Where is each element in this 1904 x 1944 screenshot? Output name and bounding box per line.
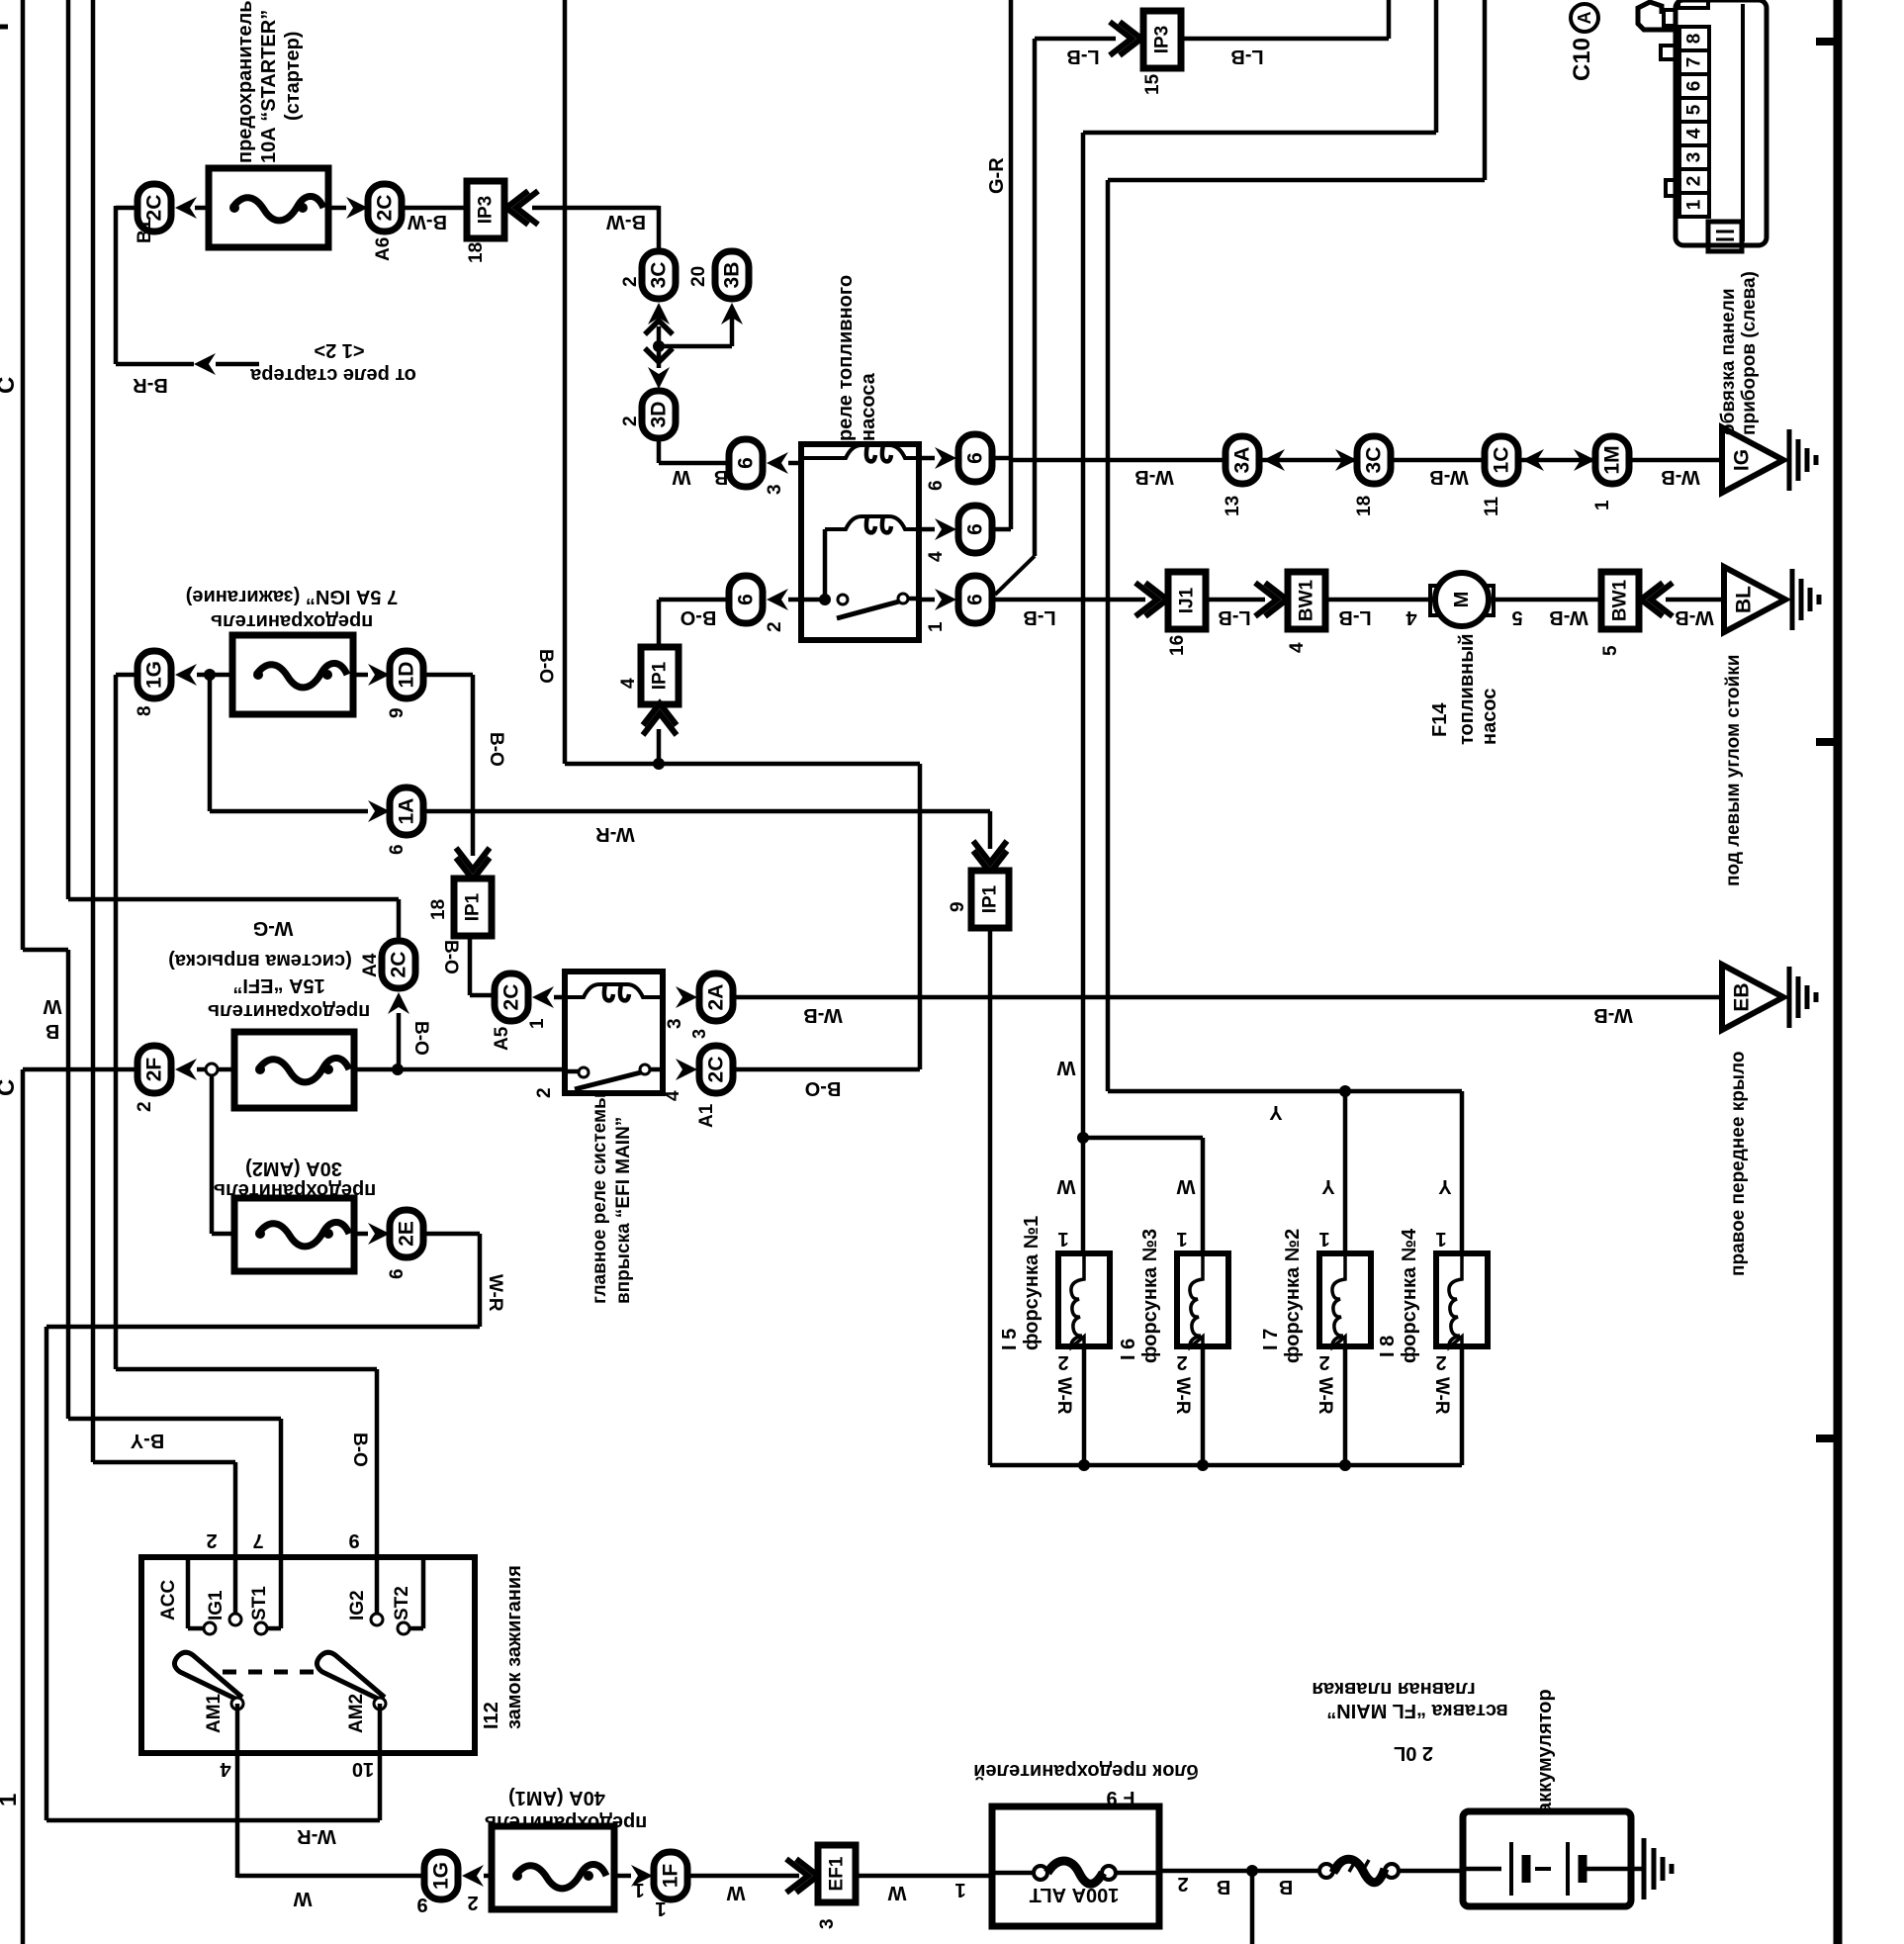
wire fuse AM2 to arrow — [354, 1232, 368, 1237]
svg-text:3C: 3C — [1363, 447, 1386, 474]
injector I5 box — [1058, 1253, 1110, 1346]
injector I8 box — [1436, 1253, 1488, 1346]
svg-text:5: 5 — [1684, 104, 1705, 115]
arrow up into 3B — [721, 303, 743, 324]
svg-text:1F: 1F — [660, 1864, 682, 1889]
arrow into 1F — [631, 1865, 653, 1887]
junction dot 3C/3B/3D — [653, 340, 665, 352]
connector IP3 pin 15 box — [1143, 11, 1181, 68]
svg-text:A5: A5 — [492, 1026, 512, 1051]
wire W-B to EB — [733, 995, 1722, 1000]
svg-text:BL: BL — [1733, 586, 1756, 613]
ground symbol at BL — [1790, 569, 1795, 630]
contact AM2 — [374, 1698, 386, 1710]
connector C10 tab1 — [1664, 10, 1676, 26]
svg-text:форсунка №4: форсунка №4 — [1399, 1228, 1420, 1363]
svg-text:4: 4 — [1287, 642, 1308, 653]
svg-text:2 0L: 2 0L — [1394, 1742, 1433, 1764]
wire fuse EFI to relay — [354, 1067, 565, 1072]
wire W elbow right vertical — [1434, 0, 1439, 133]
svg-text:B-O: B-O — [440, 940, 461, 974]
terminal ACC contact — [204, 1622, 216, 1634]
svg-text:L-B: L-B — [1218, 606, 1250, 628]
svg-text:топливный: топливный — [1456, 633, 1478, 745]
chevrons into IP3-15 — [1110, 22, 1141, 55]
connector C10 pin 2 square — [1679, 169, 1709, 193]
svg-text:W-B: W-B — [1429, 466, 1469, 488]
terminal ST1 stub — [279, 1560, 284, 1628]
battery ground — [1642, 1838, 1647, 1899]
svg-text:A: A — [1575, 12, 1594, 25]
connector 2C pin A5 — [495, 973, 528, 1021]
wire W to IG1 corner — [93, 1460, 235, 1465]
svg-text:4: 4 — [618, 678, 639, 689]
svg-text:6: 6 — [964, 452, 987, 464]
wire 3C to junction — [657, 326, 662, 346]
terminal ST1 contact — [255, 1622, 267, 1634]
wire fuse to arrow 1D — [353, 673, 368, 678]
svg-text:13: 13 — [1223, 496, 1243, 516]
svg-text:B-O: B-O — [535, 649, 556, 684]
svg-text:W-R: W-R — [1431, 1377, 1452, 1415]
svg-text:W-R: W-R — [1053, 1377, 1074, 1415]
connector IP1 pin 18 box — [454, 879, 492, 936]
wire inj3 pin2 — [1201, 1346, 1206, 1465]
wire junction to 3B riser — [659, 344, 732, 349]
wire 2F line from border — [23, 1067, 137, 1072]
svg-text:3A: 3A — [1231, 447, 1254, 474]
chevrons into EF1 — [786, 1859, 818, 1893]
fuse 30A AM2 box — [234, 1198, 354, 1271]
arrow into 1C — [1522, 449, 1544, 471]
injector I6 box — [1177, 1253, 1228, 1346]
connector 2F pin 2 — [137, 1046, 171, 1093]
svg-text:G-R: G-R — [986, 157, 1008, 194]
connector 2E pin 6 — [390, 1210, 423, 1257]
wire B-O horizontal — [116, 1367, 377, 1372]
arrow into 2A — [676, 986, 697, 1008]
svg-text:10: 10 — [352, 1758, 374, 1780]
svg-text:A4: A4 — [360, 953, 381, 977]
EFI MAIN relay box — [565, 972, 663, 1093]
wire EF1 to fusebox — [856, 1874, 992, 1879]
svg-text:I12: I12 — [481, 1702, 502, 1729]
connector 1A pin 6 — [390, 787, 423, 835]
svg-text:W: W — [43, 995, 61, 1017]
battery plate short 2 — [1579, 1855, 1587, 1883]
connector 2C pin A6 — [368, 184, 402, 231]
wire FL MAIN to battery — [1399, 1869, 1463, 1874]
pump relay right contact — [898, 594, 908, 603]
connector 6 pin 1 of pump relay — [958, 576, 992, 623]
wire IP1-4 down to junction — [657, 729, 662, 764]
svg-text:AM1: AM1 — [204, 1693, 225, 1733]
junction dot at IGN fuse — [204, 669, 216, 681]
chevrons left after BW1-5 — [1641, 583, 1673, 616]
arrow into pin3 oval — [767, 452, 788, 474]
fuel pump relay box — [801, 444, 919, 640]
ignition switch box — [141, 1557, 475, 1753]
svg-text:4: 4 — [1684, 128, 1705, 139]
wire L-B from IP3-15 vertical — [1033, 39, 1038, 556]
svg-text:главная плавкая: главная плавкая — [1312, 1678, 1475, 1700]
arrow down into 3D — [648, 367, 670, 389]
chevrons into BW1 — [1255, 583, 1287, 616]
wire chevron to corner — [532, 206, 659, 211]
svg-text:W-B: W-B — [803, 1004, 843, 1026]
svg-text:3: 3 — [665, 1018, 685, 1029]
wire to 1A oval — [210, 809, 368, 814]
svg-text:W: W — [1056, 1057, 1075, 1078]
wire W elbow horizontal — [1083, 131, 1436, 136]
wire B-R corner to connector B1 — [116, 206, 137, 211]
wire G-R vertical — [1009, 0, 1014, 529]
EFI relay switch arm — [575, 1072, 641, 1089]
svg-text:W: W — [726, 1882, 745, 1903]
svg-text:ACC: ACC — [158, 1580, 179, 1620]
fusible link 100A ALT — [1034, 1866, 1047, 1880]
connector IP1 pin 4 box — [641, 647, 679, 704]
connector 2A pin 3 — [699, 973, 733, 1021]
svg-text:под левым углом стойки: под левым углом стойки — [1723, 655, 1744, 886]
wire F9 to FL MAIN — [1159, 1869, 1319, 1874]
fuse 40A AM1 box — [492, 1826, 614, 1909]
wire IP1-18 down — [468, 935, 473, 995]
svg-text:6: 6 — [926, 480, 947, 491]
terminal ST2 stub — [421, 1560, 426, 1628]
svg-text:W-R: W-R — [595, 823, 635, 845]
svg-text:1: 1 — [1176, 1228, 1187, 1250]
wire arrow to relay pin2 — [788, 598, 803, 602]
wire inj2 pin2 — [1343, 1346, 1348, 1465]
svg-text:2: 2 — [1318, 1351, 1329, 1373]
svg-text:блок предохранителей: блок предохранителей — [973, 1760, 1199, 1782]
connector C10 pin 7 square — [1679, 50, 1709, 74]
wire 3B riser — [730, 309, 735, 346]
wire fuse AM1 out — [614, 1874, 631, 1879]
chevrons down into IP1-9 — [973, 841, 1007, 873]
arrow into 1G — [175, 664, 197, 686]
wire IP3-15 to corner — [1181, 37, 1389, 42]
connector 3A pin 13 — [1225, 436, 1259, 484]
svg-text:5: 5 — [1600, 645, 1621, 656]
wire 2E to corner — [423, 1232, 480, 1237]
wire to BL triangle — [1666, 598, 1724, 602]
wire W-R loop left vertical — [45, 1327, 49, 1820]
wire IP1-18 corner to A5 — [470, 993, 495, 998]
wire F9 internal left — [992, 1871, 1034, 1876]
wire A1 to corner — [733, 1067, 920, 1072]
arrow into 2E — [368, 1223, 390, 1245]
chevrons right of IP3-18 — [506, 191, 538, 225]
svg-text:1: 1 — [1435, 1228, 1446, 1250]
svg-text:W: W — [1056, 1175, 1075, 1197]
EFI relay right contact — [640, 1065, 650, 1074]
svg-text:2: 2 — [206, 1529, 217, 1551]
svg-text:1: 1 — [527, 1018, 548, 1029]
svg-text:B: B — [1217, 1876, 1230, 1898]
wire 1D corner down to chevron — [471, 675, 476, 856]
svg-text:Y: Y — [1321, 1175, 1335, 1197]
svg-text:2E: 2E — [396, 1221, 418, 1247]
svg-text:1D: 1D — [396, 662, 418, 689]
svg-text:1: 1 — [633, 1879, 644, 1900]
junction dot battery line — [1246, 1865, 1258, 1877]
svg-text:предохранитель: предохранитель — [211, 610, 374, 632]
svg-text:вставка “FL MAIN”: вставка “FL MAIN” — [1326, 1700, 1508, 1721]
svg-text:30А (AM2): 30А (AM2) — [245, 1157, 342, 1179]
svg-text:реле топливного: реле топливного — [835, 275, 857, 441]
svg-text:20: 20 — [688, 266, 709, 287]
chevrons into IJ1 — [1135, 583, 1167, 616]
svg-text:B-O: B-O — [349, 1433, 370, 1467]
svg-text:4: 4 — [220, 1758, 231, 1780]
wire down from dot — [1250, 1871, 1255, 1944]
wire B-Y mid vertical — [66, 950, 71, 1419]
wire 3D down to corner — [657, 438, 662, 463]
svg-text:3: 3 — [765, 484, 785, 495]
svg-text:EF1: EF1 — [827, 1856, 848, 1891]
svg-text:6: 6 — [387, 844, 408, 855]
svg-text:4: 4 — [663, 1090, 683, 1101]
wire B-O right vertical — [918, 764, 923, 1069]
wire IJ1 to BW1 — [1206, 598, 1265, 602]
arrow into 1D — [368, 664, 390, 686]
connector C10 tab3 — [1666, 180, 1676, 196]
wire B-Y horizontal — [68, 1417, 281, 1422]
svg-text:B: B — [1279, 1876, 1293, 1898]
connector C10 circle A — [1571, 4, 1598, 32]
wire A5 to EFI relay — [554, 995, 567, 1000]
svg-text:3B: 3B — [721, 262, 744, 289]
svg-text:1: 1 — [1318, 1228, 1329, 1250]
fuse 7.5A IGN box — [232, 635, 353, 714]
svg-text:W-B: W-B — [1661, 466, 1700, 488]
svg-text:от реле стартера: от реле стартера — [249, 364, 416, 386]
junction dot W branch — [1077, 1132, 1089, 1144]
svg-text:B-W: B-W — [606, 211, 646, 232]
svg-text:6: 6 — [735, 594, 758, 605]
svg-text:IP1: IP1 — [650, 661, 671, 690]
pump relay coil1 — [801, 445, 919, 458]
chevron of arrow 3D — [645, 348, 673, 362]
fuel pump motor tabs — [1430, 586, 1440, 615]
connector 3D pin 2 — [642, 391, 676, 438]
svg-text:IP3: IP3 — [476, 196, 497, 225]
svg-text:F 9: F 9 — [1107, 1787, 1135, 1808]
wire B-O horizontal — [565, 762, 920, 767]
svg-text:IP1: IP1 — [463, 892, 484, 921]
wire arrow to pump relay box — [788, 461, 803, 466]
wire AM1 down — [235, 1704, 240, 1878]
svg-text:1: 1 — [655, 1898, 666, 1919]
wire W-R line — [423, 809, 990, 814]
wire 1D to corner — [423, 673, 473, 678]
connector 1D pin 9 — [390, 651, 423, 698]
arrow from starter relay — [194, 353, 216, 375]
wire pin6 stub — [919, 456, 935, 461]
svg-text:4: 4 — [1405, 606, 1417, 628]
svg-text:W: W — [887, 1882, 906, 1903]
svg-text:IG2: IG2 — [347, 1590, 368, 1620]
wire F9 internal right — [1116, 1871, 1159, 1876]
svg-text:L-B: L-B — [1230, 46, 1263, 67]
switch arm AM1 — [174, 1652, 240, 1700]
svg-text:2C: 2C — [705, 1057, 728, 1083]
connector EF1 pin 3 box — [818, 1845, 856, 1902]
wire W-G corner down to A4 — [397, 899, 402, 943]
wire arrow to junction circle — [197, 1067, 206, 1072]
connector 1F pin 1 — [654, 1852, 687, 1899]
svg-text:A6: A6 — [373, 237, 394, 261]
wire W vertical down — [1081, 133, 1086, 1138]
wire IG1 down — [233, 1462, 238, 1559]
wire IP1-9 down to injector rail — [988, 927, 993, 1465]
svg-text:3: 3 — [1684, 152, 1705, 163]
wire W-G horizontal — [68, 897, 399, 902]
wire Y elbow horizontal — [1108, 178, 1485, 183]
arrow into 3C2 — [1335, 449, 1357, 471]
svg-text:1: 1 — [954, 1879, 965, 1900]
svg-text:2C: 2C — [374, 195, 397, 222]
svg-text:W-B: W-B — [1675, 606, 1714, 628]
connector C10 tab2 — [1661, 46, 1676, 59]
wire border lower vertical — [21, 1069, 26, 1944]
connector 2C pin B1 — [137, 184, 171, 231]
connector 6 pin 4 of pump relay — [958, 506, 992, 553]
svg-text:11: 11 — [1482, 496, 1502, 516]
svg-text:1: 1 — [1684, 199, 1705, 210]
battery plate short 1 — [1522, 1855, 1531, 1883]
wire W vertical — [91, 0, 96, 1462]
terminal IG2 contact — [371, 1614, 383, 1625]
wire W-B line — [1011, 458, 1722, 463]
svg-text:2C: 2C — [500, 984, 523, 1011]
ground triangle EB — [1722, 965, 1783, 1030]
diagram right border line — [1834, 0, 1843, 1944]
battery box — [1463, 1811, 1631, 1906]
connector 2C pin A1 — [699, 1046, 733, 1093]
svg-text:2: 2 — [1176, 1351, 1187, 1373]
svg-text:<1 2>: <1 2> — [314, 339, 364, 361]
svg-text:W-R: W-R — [1172, 1377, 1193, 1415]
svg-text:(система впрыска): (система впрыска) — [168, 950, 352, 972]
EFI relay left contact — [579, 1067, 589, 1077]
svg-text:B-Y: B-Y — [130, 1430, 164, 1451]
connector 6 pin 6 of pump relay — [958, 434, 992, 482]
svg-text:B1: B1 — [135, 219, 155, 243]
svg-text:1: 1 — [0, 1794, 22, 1806]
junction dot B-O — [653, 758, 665, 770]
contact AM1 — [231, 1698, 243, 1710]
arrow up into A4 — [388, 992, 409, 1014]
terminal IG1 stub — [233, 1560, 238, 1613]
dashed link between arms — [223, 1670, 315, 1675]
chevrons down into IP1-18 — [456, 848, 490, 879]
connector IJ1 pin 16 box — [1168, 572, 1206, 629]
wire dot down from IGN fuse — [208, 675, 213, 811]
wire B-O top vertical — [563, 0, 568, 764]
wire AM2 down — [378, 1704, 383, 1820]
svg-text:B-W: B-W — [408, 211, 447, 232]
injector I7 box — [1319, 1253, 1371, 1346]
svg-text:обвязка панели: обвязка панели — [1718, 289, 1739, 436]
wire Y elbow right vertical — [1483, 0, 1488, 180]
svg-text:впрыска “EFI MAIN”: впрыска “EFI MAIN” — [613, 1117, 634, 1304]
svg-text:AM2: AM2 — [346, 1694, 367, 1733]
wire W-G left vertical — [66, 0, 71, 899]
battery plate long 2 — [1566, 1842, 1570, 1896]
svg-text:F14: F14 — [1429, 702, 1451, 737]
connector 1C pin 11 — [1485, 436, 1518, 484]
svg-text:C: C — [0, 1079, 20, 1096]
svg-text:W-R: W-R — [485, 1274, 505, 1312]
junction dot A4 branch — [392, 1064, 404, 1075]
connector 3C pin 18 — [1357, 436, 1391, 484]
svg-text:замок зажигания: замок зажигания — [503, 1565, 525, 1729]
svg-text:аккумулятор: аккумулятор — [1534, 1689, 1556, 1813]
svg-text:18: 18 — [428, 899, 449, 920]
wire arrow to dot — [197, 673, 211, 678]
wire inj1 pin2 — [1082, 1346, 1087, 1465]
svg-text:L-B: L-B — [1066, 46, 1099, 67]
svg-text:C: C — [0, 377, 20, 394]
battery cell link — [1535, 1867, 1551, 1871]
svg-text:8: 8 — [135, 705, 155, 716]
svg-text:M: M — [1451, 592, 1473, 608]
fuse 10A STARTER box — [209, 168, 328, 247]
connector C10 inner wall — [1741, 4, 1745, 241]
wire arrow to fuse STARTER — [195, 206, 211, 211]
wire B-Y to ST1 — [279, 1419, 284, 1559]
border tick mark top — [1816, 38, 1838, 46]
fuel pump motor — [1435, 573, 1489, 626]
connector IP3 pin 18 box — [467, 181, 504, 238]
svg-text:2: 2 — [1684, 176, 1705, 187]
wire corner to pump relay pin3 oval — [659, 461, 731, 466]
wire pin6 to G-R corner — [992, 456, 1011, 461]
connector IP1 pin 9 box — [971, 871, 1009, 928]
svg-text:W: W — [293, 1888, 312, 1909]
svg-text:приборов (слева): приборов (слева) — [1739, 271, 1760, 435]
chevrons up into IP1-4 — [643, 703, 677, 735]
svg-text:100А ALT: 100А ALT — [1030, 1884, 1120, 1905]
svg-text:насоса: насоса — [858, 372, 879, 441]
terminal IG1 contact — [229, 1614, 241, 1625]
svg-text:W-B: W-B — [1134, 466, 1174, 488]
injector common rail — [990, 1463, 1462, 1468]
svg-text:L-B: L-B — [1338, 606, 1371, 628]
wire pin2 oval to corner — [659, 598, 729, 602]
connector C10 hook — [1638, 2, 1676, 30]
wire inj2 riser — [1343, 1091, 1348, 1253]
junction dot rail inj1 — [1078, 1459, 1090, 1471]
svg-text:1: 1 — [926, 621, 947, 632]
svg-text:IG1: IG1 — [206, 1590, 227, 1620]
wire B-R vertical — [114, 206, 119, 364]
junction dot rail inj3 — [1197, 1459, 1209, 1471]
svg-text:насос: насос — [1479, 689, 1500, 745]
wire to fuse AM2 — [212, 1232, 236, 1237]
svg-text:1G: 1G — [430, 1862, 453, 1890]
connector 6 pin 2 of pump relay — [729, 576, 763, 623]
wire W-R loop horizontal — [46, 1325, 480, 1330]
terminal ACC stub — [186, 1560, 191, 1628]
chevron of arrow 3C — [645, 321, 673, 334]
svg-text:2: 2 — [534, 1087, 555, 1098]
arrow into 3A — [1263, 449, 1285, 471]
arrow into 1A — [368, 800, 390, 822]
